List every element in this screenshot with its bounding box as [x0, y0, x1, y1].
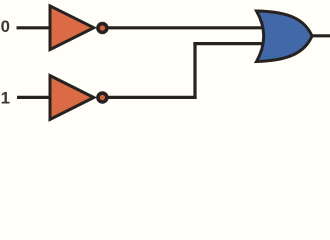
- OR gate U3: [257, 11, 313, 62]
- inverter U1 bubble: [98, 24, 107, 33]
- inverter U2 bubble: [98, 93, 107, 102]
- wire inverter U1 output to OR gate U3 top input: [104, 26, 265, 29]
- wire input 1 to inverter U2: [17, 96, 52, 99]
- wire to OR gate U3 lower input: [193, 42, 265, 45]
- inverter U2 triangle: [50, 76, 94, 120]
- wire input 0 to inverter U1: [17, 26, 53, 29]
- svg-text:1: 1: [1, 88, 10, 107]
- wire OR gate U3 output: [308, 34, 330, 37]
- svg-text:0: 0: [1, 17, 10, 36]
- wire vertical riser at node x=195: [193, 42, 196, 99]
- wire inverter U2 output horizontal segment: [104, 96, 197, 99]
- inverter U1 triangle: [50, 6, 94, 50]
